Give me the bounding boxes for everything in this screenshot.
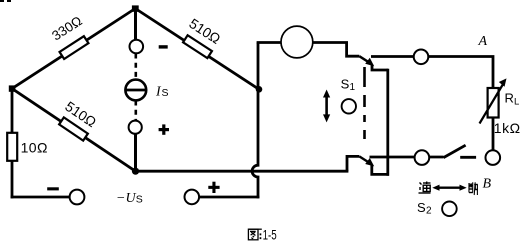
char duan: [469, 182, 478, 195]
wire socket top: [372, 65, 388, 71]
wire bottom plug vertical: [347, 156, 359, 171]
node top: [132, 5, 139, 11]
switch circle left: [415, 150, 430, 165]
node left: [9, 85, 16, 91]
svg-text:S: S: [162, 87, 169, 99]
wire RL bottom to switch circle: [492, 117, 495, 151]
svg-text:1kΩ: 1kΩ: [494, 120, 521, 136]
svg-text:S: S: [136, 194, 143, 206]
wire dashed IS top: [135, 54, 138, 81]
current source IS: [125, 80, 146, 101]
wire top plug prong diagonal: [359, 56, 370, 63]
node right junction: [256, 86, 263, 93]
node bottom: [132, 168, 139, 175]
terminal A circle: [414, 50, 429, 65]
wire bottom-left horizontal: [11, 196, 77, 199]
arrowhead top prong: [365, 58, 374, 66]
wire bottom node to plug: [136, 170, 349, 173]
wire top plug vertical: [347, 43, 360, 57]
svg-text:B: B: [483, 177, 492, 192]
switch circle right: [486, 150, 501, 165]
wire top node to terminal chain: [134, 9, 137, 43]
wire bottom middle horizontal: [191, 196, 259, 199]
minus sign bottom-left: [47, 187, 59, 190]
resistor 10ohm: [7, 133, 17, 161]
wire box top left: [257, 41, 282, 44]
wire dashed IS bottom: [135, 101, 138, 122]
arrowhead bottom prong: [365, 158, 374, 166]
wire bridge lower-left branch: [12, 89, 136, 172]
svg-text:1-5: 1-5: [263, 227, 277, 243]
wire socket bottom: [372, 165, 389, 174]
switch stub: [460, 156, 476, 159]
double arrow vertical: [323, 90, 330, 123]
svg-text:2: 2: [426, 206, 432, 217]
svg-text:S: S: [341, 76, 350, 91]
wire bridge top-right branch: [135, 9, 259, 90]
caption char tu: [248, 229, 261, 240]
svg-text:R: R: [505, 91, 514, 106]
resistor 510ohm top: [183, 35, 212, 58]
wire socket right vertical: [386, 69, 389, 176]
resistor 510ohm lower: [59, 117, 88, 140]
terminal bottom-middle plus: [185, 190, 200, 205]
resistor 330ohm: [60, 36, 89, 59]
jack circle S1: [342, 99, 356, 113]
wire bottom output to switch: [370, 156, 444, 159]
wire box left edge with hop: [252, 43, 258, 199]
wire left vertical: [11, 89, 14, 199]
plus sign IS bottom: [159, 124, 169, 134]
wire chain bottom to node: [134, 133, 137, 172]
terminal chain top circle: [130, 40, 144, 54]
svg-text:10Ω: 10Ω: [21, 140, 48, 156]
plus sign bottom: [208, 182, 219, 193]
wire bridge top-left branch: [12, 9, 135, 89]
wire top output to A corner: [371, 57, 493, 89]
wire bottom plug prong diagonal: [359, 156, 370, 163]
svg-text:A: A: [478, 34, 488, 49]
svg-text:−U: −U: [116, 191, 136, 206]
svg-text:S: S: [417, 200, 426, 215]
char tong: [419, 182, 431, 194]
minus sign IS top: [159, 45, 168, 48]
jack circle S2: [442, 202, 457, 217]
terminal chain bottom circle: [129, 121, 142, 134]
double arrow horizontal: [432, 185, 466, 191]
svg-text:1: 1: [350, 82, 356, 93]
meter circle: [281, 26, 313, 58]
corner speck: [0, 0, 11, 2]
switch blade S: [444, 145, 466, 157]
rheostat RL: [480, 78, 507, 123]
caption colon artifact: [260, 233, 262, 239]
dashed panel boundary: [363, 67, 366, 139]
wire meter to plug: [312, 41, 348, 44]
svg-text:L: L: [514, 97, 519, 108]
terminal bottom-left minus: [70, 190, 85, 205]
